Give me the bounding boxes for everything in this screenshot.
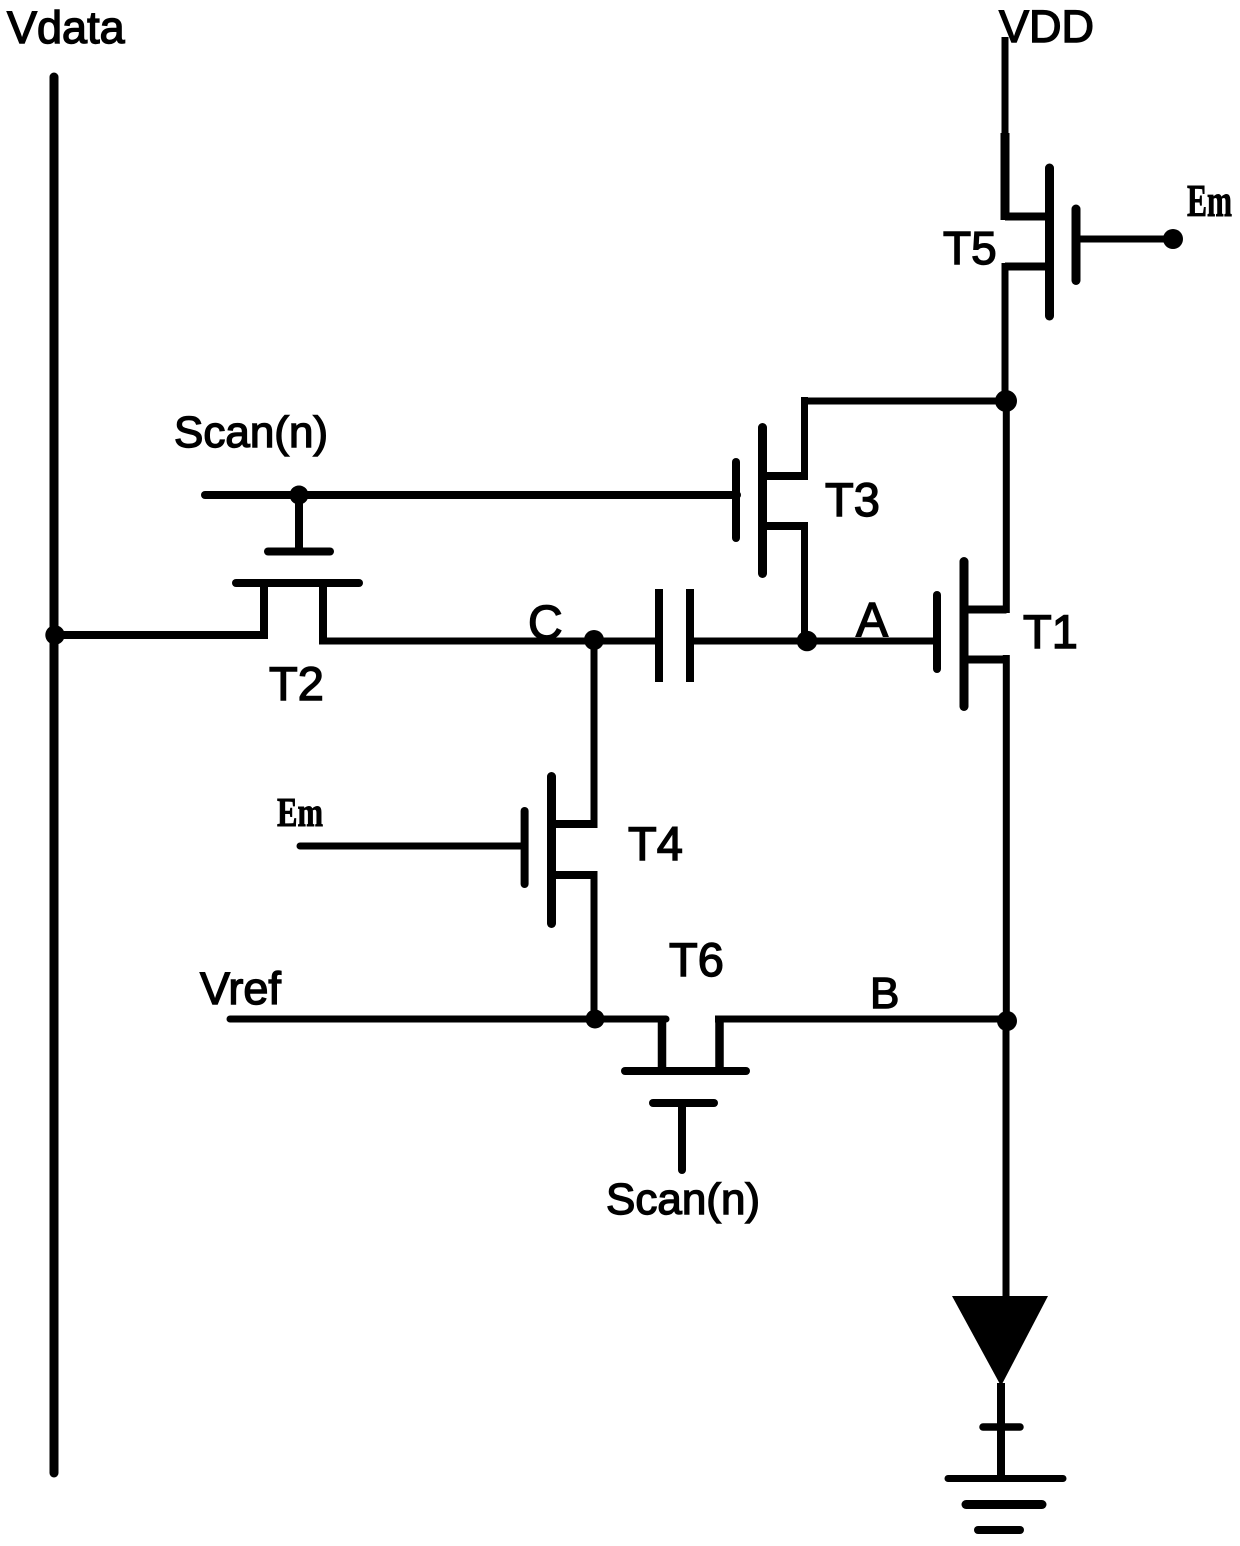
svg-text:T5: T5 xyxy=(943,222,997,274)
svg-text:T2: T2 xyxy=(269,657,324,710)
svg-text:C: C xyxy=(528,597,563,650)
svg-text:T3: T3 xyxy=(825,473,880,526)
svg-text:T1: T1 xyxy=(1023,605,1078,658)
svg-text:B: B xyxy=(870,969,899,1018)
svg-text:T6: T6 xyxy=(669,933,724,986)
svg-text:VDD: VDD xyxy=(999,1,1094,52)
svg-text:Em: Em xyxy=(277,789,323,835)
svg-text:Scan(n): Scan(n) xyxy=(174,408,328,457)
svg-text:Vref: Vref xyxy=(200,963,281,1014)
svg-text:Scan(n): Scan(n) xyxy=(606,1175,760,1224)
svg-text:Vdata: Vdata xyxy=(7,2,126,53)
svg-text:Em: Em xyxy=(1187,176,1232,226)
svg-text:T4: T4 xyxy=(628,817,683,870)
svg-text:A: A xyxy=(856,594,888,647)
